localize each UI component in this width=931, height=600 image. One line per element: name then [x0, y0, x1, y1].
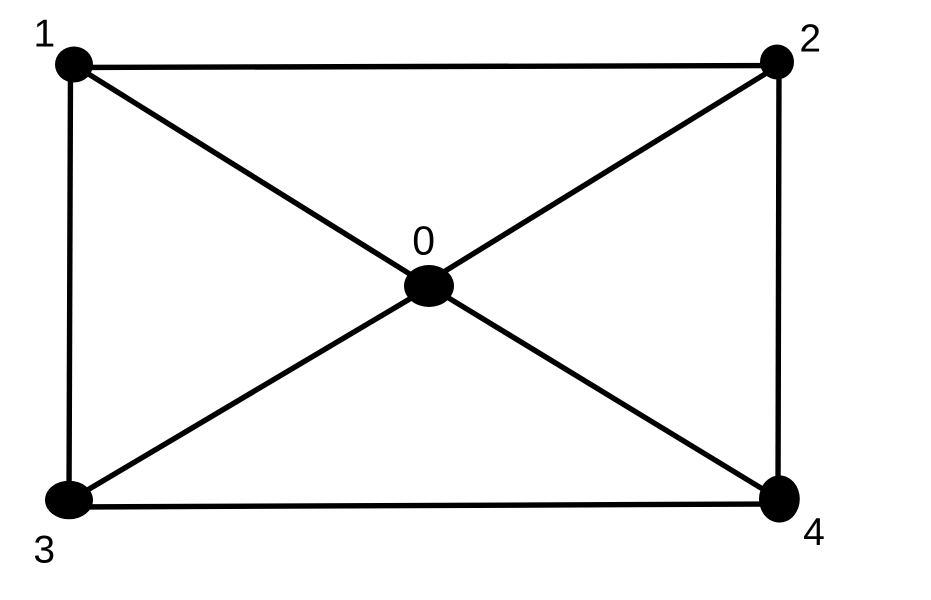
node 1 [55, 47, 93, 83]
wire edge 3-4 (bottom) [69, 504, 779, 507]
svg-text:0: 0 [412, 218, 435, 264]
svg-text:4: 4 [803, 511, 825, 554]
node 3 [45, 481, 93, 520]
wire edge 0-3 (diagonal) [69, 288, 429, 502]
wire edge 1-3 (left) [69, 65, 71, 500]
svg-text:1: 1 [34, 13, 56, 56]
wire edge 0-4 (diagonal) [429, 286, 779, 499]
node 0 [404, 265, 454, 307]
wire edge 1-2 (top) [74, 66, 777, 68]
node 4 [759, 475, 800, 522]
svg-text:2: 2 [799, 18, 821, 61]
svg-text:3: 3 [33, 529, 55, 572]
wire edge 0-1 (diagonal) [74, 65, 429, 286]
wire edge 2-4 (right) [778, 62, 779, 499]
wire edge 0-2 (diagonal) [429, 66, 778, 281]
node 2 [760, 45, 794, 80]
